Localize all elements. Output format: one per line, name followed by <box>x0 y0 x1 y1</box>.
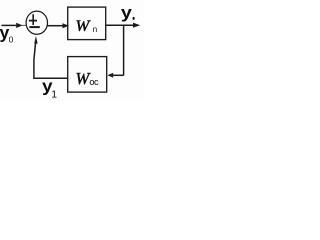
svg-text:n: n <box>93 25 98 34</box>
svg-text:oc: oc <box>89 77 99 87</box>
svg-text:1: 1 <box>51 89 57 101</box>
svg-text:0: 0 <box>9 35 14 45</box>
svg-text:y: y <box>121 3 133 22</box>
svg-text:W: W <box>76 18 92 35</box>
